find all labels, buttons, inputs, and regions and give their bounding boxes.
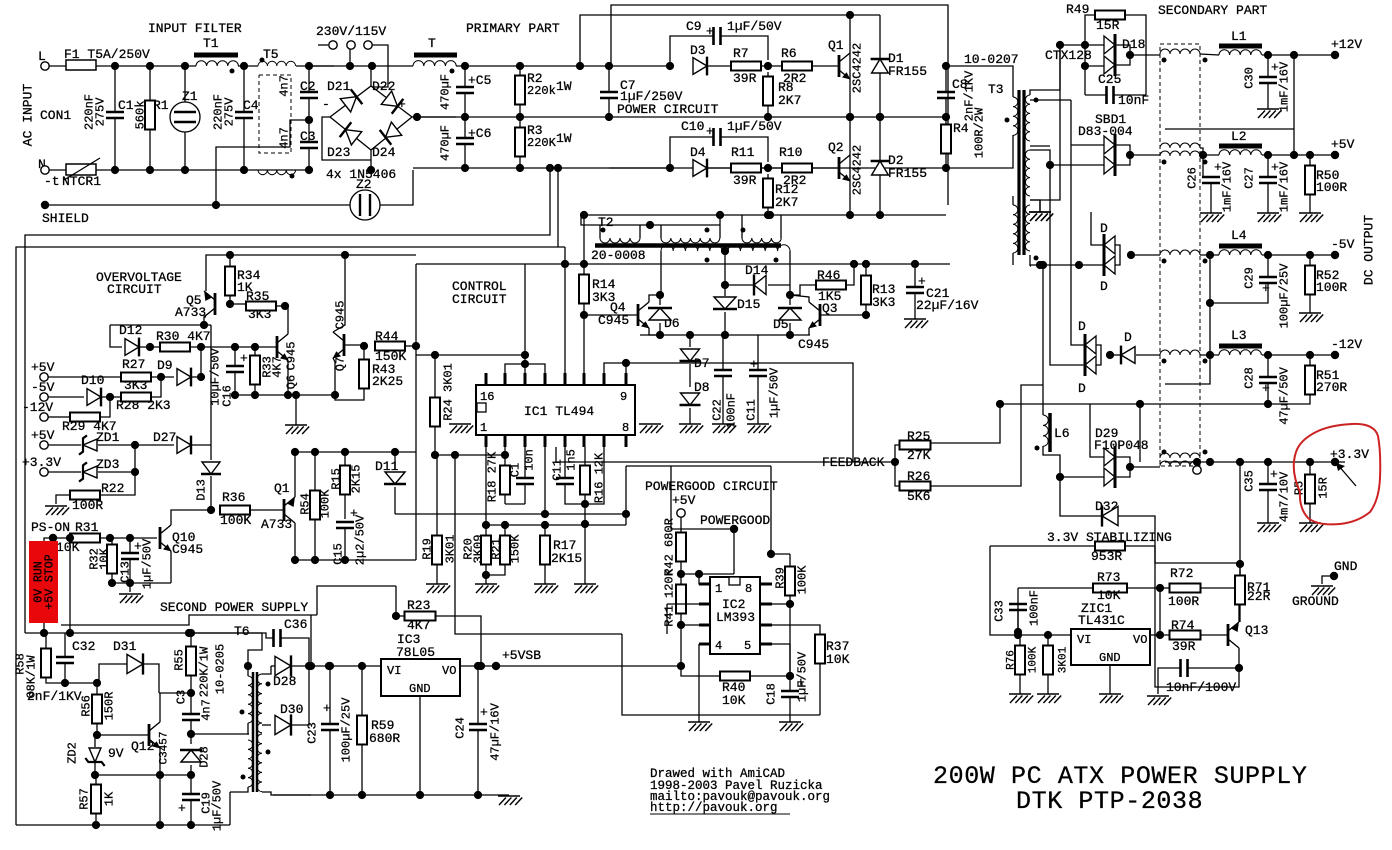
- wire R5 bottom: [1309, 504, 1311, 523]
- core T: [414, 53, 457, 58]
- junction: [561, 260, 569, 268]
- junction: [197, 343, 205, 351]
- wire pin10: [604, 363, 626, 373]
- wire D29 in1: [1090, 404, 1104, 457]
- inductor sec +3.3V a: [1160, 453, 1200, 458]
- wire D out -12V: [1136, 354, 1160, 356]
- wire R56 top: [96, 683, 98, 695]
- wire C30 top: [1267, 55, 1269, 77]
- wire y363 to right: [626, 363, 853, 462]
- svg-text:R41 120K: R41 120K: [663, 568, 677, 626]
- wire D10 out: [102, 396, 122, 398]
- diode D15: [713, 297, 737, 309]
- svg-text:VI: VI: [387, 664, 401, 678]
- svg-text:4x 1N5406: 4x 1N5406: [326, 167, 396, 182]
- wire R21 top: [504, 525, 506, 536]
- svg-text:D10: D10: [81, 373, 104, 388]
- junction: [1075, 261, 1083, 269]
- junction: [477, 662, 485, 670]
- svg-text:C36: C36: [284, 617, 307, 632]
- ground IC1 right: [639, 424, 663, 433]
- wire R33 bottom: [254, 385, 256, 395]
- svg-text:2SC4242: 2SC4242: [851, 43, 865, 93]
- wire D28 in: [271, 665, 275, 667]
- wire T2 sec left drop: [660, 251, 662, 295]
- wire T2 stub b1: [660, 225, 662, 238]
- wire C32 bottom: [64, 663, 66, 683]
- inductor sec +5V a: [1160, 143, 1200, 148]
- junction: [131, 441, 139, 449]
- phase dot: [1005, 118, 1010, 123]
- diode D11: [384, 472, 406, 484]
- junction: [686, 331, 694, 339]
- wire D9 up: [200, 347, 202, 377]
- wire control rail 20-0008: [416, 263, 950, 265]
- ground R52: [1299, 313, 1323, 322]
- wire R42 top: [680, 517, 682, 532]
- wire pin2: [667, 603, 699, 605]
- transistor Q4: [638, 302, 650, 329]
- wire sense line ext: [1140, 403, 1268, 405]
- wire power bottom rail: [581, 214, 946, 216]
- svg-text:CIRCUIT: CIRCUIT: [107, 282, 162, 297]
- svg-text:+: +: [480, 705, 488, 720]
- wire FEEDBACK line: [556, 447, 895, 462]
- svg-text:1µF/50V: 1µF/50V: [211, 780, 225, 831]
- svg-text:GROUND: GROUND: [1292, 594, 1339, 609]
- junction: [1199, 151, 1207, 159]
- wire R22 to gnd: [56, 495, 70, 504]
- wire to D single: [1110, 354, 1121, 356]
- resistor R8: [763, 77, 773, 106]
- diode D5: [778, 308, 802, 320]
- wire -5V rail: [1262, 254, 1335, 256]
- svg-text:+5V: +5V: [1331, 137, 1355, 152]
- transistor Q2: [839, 155, 851, 182]
- svg-text:CIRCUIT: CIRCUIT: [452, 292, 507, 307]
- svg-text:100K: 100K: [1028, 646, 1040, 673]
- wire R19 top: [436, 455, 438, 536]
- wire C15 bottom: [344, 528, 346, 560]
- wire R32 bottom: [111, 574, 113, 583]
- svg-text:4: 4: [715, 639, 722, 653]
- terminal -5V: [1331, 251, 1339, 259]
- core L6: [1048, 413, 1052, 452]
- junction: [66, 629, 74, 637]
- junction: [501, 521, 509, 529]
- diode D6: [648, 308, 672, 320]
- svg-text:3K01: 3K01: [1058, 646, 1070, 673]
- wire R32 top: [110, 538, 112, 545]
- wire +12V to +5V link: [1293, 55, 1295, 155]
- svg-text:100µF/25V: 100µF/25V: [1278, 263, 1292, 329]
- junction: [721, 331, 729, 339]
- wire Q13 emitter: [1239, 605, 1240, 622]
- wire R20 top: [485, 525, 487, 536]
- capacitor C1: [106, 112, 124, 118]
- wire C22 bottom: [722, 376, 724, 424]
- svg-text:15R: 15R: [1096, 18, 1120, 33]
- svg-text:47µF/50V: 47µF/50V: [1278, 366, 1292, 424]
- svg-text:8: 8: [745, 582, 752, 596]
- svg-text:220K: 220K: [527, 136, 557, 150]
- resistor R42: [676, 533, 686, 562]
- capacitor C11 b: [749, 370, 767, 376]
- svg-text:4m7/10V: 4m7/10V: [1278, 471, 1292, 522]
- ground cap: [1147, 696, 1171, 705]
- wire pin5: [772, 644, 790, 676]
- capacitor C29: [1259, 277, 1277, 283]
- svg-text:220k: 220k: [527, 84, 556, 98]
- wire R3 top: [519, 117, 521, 128]
- wire D14 in: [725, 284, 753, 286]
- wire R43 bottom: [335, 389, 364, 400]
- wire R59 bottom: [361, 745, 363, 795]
- capacitor C4: [235, 112, 253, 118]
- wire R71 top: [1239, 564, 1241, 576]
- diode D2: [871, 161, 890, 175]
- wire T6 prim bottom: [248, 723, 249, 734]
- wire to POWERGOOD: [671, 466, 734, 529]
- resistor R24: [430, 398, 440, 427]
- wire R54 bottom: [314, 520, 316, 560]
- junction: [1156, 584, 1164, 592]
- svg-text:-12V: -12V: [22, 400, 53, 415]
- junction: [61, 679, 69, 687]
- wire to ZD3: [48, 471, 81, 473]
- junction: [1126, 463, 1134, 471]
- svg-text:R18 27K: R18 27K: [486, 451, 500, 502]
- junction: [126, 534, 134, 542]
- red annotation run/stop: [29, 541, 58, 623]
- wire C4 top: [243, 66, 245, 112]
- svg-text:R11: R11: [731, 145, 755, 160]
- svg-text:FR155: FR155: [888, 64, 927, 79]
- resistor R3: [515, 128, 525, 157]
- terminal selector 3: [364, 41, 372, 49]
- wire bridge top: [370, 66, 372, 86]
- svg-text:D15: D15: [737, 297, 760, 312]
- junction: [106, 534, 114, 542]
- junction: [1126, 151, 1134, 159]
- wire R1 bottom: [149, 130, 151, 170]
- junction: [1056, 473, 1064, 481]
- junction: [846, 113, 854, 121]
- phase dot: [240, 710, 245, 715]
- phase dot: [1203, 160, 1208, 165]
- wire: [396, 615, 404, 617]
- svg-text:+5VSB: +5VSB: [502, 648, 541, 663]
- wire 953R right: [1125, 545, 1155, 547]
- wire C10 left: [670, 137, 713, 168]
- svg-text:1n5: 1n5: [565, 449, 579, 471]
- junction: [786, 291, 794, 299]
- resistor R58: [41, 649, 51, 678]
- junction: [331, 391, 339, 399]
- wire pin1: [699, 574, 710, 584]
- junction: [911, 260, 919, 268]
- phase dot: [705, 258, 710, 263]
- wire C6 top: [464, 117, 466, 138]
- svg-text:10-0207: 10-0207: [964, 52, 1019, 67]
- resistor 953R: [1095, 542, 1125, 551]
- junction: [146, 343, 154, 351]
- svg-text:C23: C23: [306, 722, 320, 744]
- wire to T6: [191, 733, 249, 735]
- capacitor C5: [456, 87, 474, 93]
- junction: [305, 662, 313, 670]
- svg-text:+: +: [797, 675, 805, 690]
- capacitor C15: [336, 522, 354, 528]
- wire R51 bottom: [1268, 395, 1310, 404]
- wire GND: [1322, 576, 1334, 584]
- resistor R19: [432, 536, 442, 565]
- wire L6 bottom: [1043, 446, 1104, 477]
- terminal SHIELD: [41, 201, 49, 209]
- wire R76 bottom: [1019, 675, 1021, 694]
- capacitor C22: [714, 370, 732, 376]
- capacitor C21: [906, 287, 924, 293]
- junction: [516, 164, 524, 172]
- svg-text:2K7: 2K7: [775, 195, 798, 210]
- junction: [666, 164, 674, 172]
- pin 14 IC1: [524, 373, 527, 385]
- junction: [391, 448, 399, 456]
- junction: [605, 113, 613, 121]
- pin 11 IC1: [583, 373, 586, 385]
- wire VI rail: [311, 665, 381, 667]
- svg-text:1µF/50V: 1µF/50V: [768, 367, 782, 418]
- wire T2 upper link: [581, 215, 720, 225]
- svg-text:1K: 1K: [103, 791, 117, 806]
- svg-text:D: D: [1078, 319, 1086, 334]
- wire R3 bottom: [519, 156, 521, 168]
- svg-text:10K: 10K: [826, 652, 850, 667]
- junction: [716, 211, 724, 219]
- junction: [368, 62, 376, 70]
- wire T5 to selector rail: [296, 65, 334, 67]
- wire C5 bottom: [464, 93, 466, 117]
- wire C13 top: [129, 538, 131, 553]
- resistor R22: [70, 491, 100, 500]
- pin IC2 left stub: [699, 583, 710, 586]
- resistor R1: [145, 101, 155, 130]
- junction: [305, 116, 313, 124]
- svg-text:PS-ON: PS-ON: [31, 520, 70, 535]
- terminal +12V: [1331, 51, 1339, 59]
- wire T6 prim top: [247, 666, 249, 676]
- junction: [1264, 458, 1272, 466]
- wire tap b: [1030, 99, 1071, 101]
- svg-text:T: T: [428, 36, 436, 51]
- inductor sec +5V b: [1160, 151, 1200, 156]
- wire SBD1 in1: [1071, 144, 1104, 146]
- wire R59 top: [361, 666, 363, 716]
- wire R14 bottom: [583, 304, 585, 315]
- wire C24 bottom: [477, 730, 479, 795]
- wire +5V to R27: [48, 376, 122, 378]
- terminal +5V: [1331, 151, 1339, 159]
- junction: [291, 448, 299, 456]
- wire C18 top: [789, 676, 791, 691]
- svg-text:2µ2/50V: 2µ2/50V: [354, 514, 368, 565]
- wire R18 bottom: [504, 495, 506, 504]
- svg-text:D18: D18: [1122, 37, 1145, 52]
- inductor T6 aux: [248, 740, 253, 787]
- svg-text:D21: D21: [327, 79, 351, 94]
- wire ZD2 bottom: [94, 763, 96, 775]
- pin IC2 left stub: [699, 603, 710, 606]
- wire C18 bottom: [789, 697, 791, 722]
- wire R39 top: [789, 554, 791, 566]
- terminal -5V: [40, 393, 48, 401]
- ground IC2 b: [779, 722, 803, 731]
- svg-text:CTX128: CTX128: [1045, 48, 1092, 63]
- wire +3.3V rail: [1165, 461, 1345, 463]
- svg-text:39R: 39R: [733, 173, 757, 188]
- svg-text:ZD3: ZD3: [96, 457, 119, 472]
- wire VO out: [460, 665, 496, 667]
- wire D-5V in1: [1091, 212, 1104, 245]
- capacitor C3: [182, 714, 200, 720]
- wire C9 right: [721, 36, 768, 60]
- svg-text:100R: 100R: [72, 498, 103, 513]
- wire D9 out: [192, 376, 201, 378]
- diode D22: [381, 90, 404, 113]
- resistor R4: [941, 125, 951, 154]
- ground R50: [1299, 213, 1323, 222]
- svg-text:270R: 270R: [1316, 380, 1347, 395]
- junction: [942, 164, 950, 172]
- wire R8 top: [767, 72, 769, 76]
- junction: [786, 331, 794, 339]
- resistor 3K01: [1043, 646, 1053, 675]
- svg-text:C27: C27: [1243, 167, 1257, 189]
- capacitor C16: [226, 366, 244, 372]
- junction: [341, 448, 349, 456]
- svg-text:D24: D24: [372, 145, 396, 160]
- wire T3 aux top: [1012, 196, 1014, 205]
- inductor L3: [1219, 350, 1261, 355]
- wire R13 bottom: [865, 305, 867, 315]
- junction: [1264, 400, 1272, 408]
- wire D32 out: [1118, 516, 1155, 563]
- wire C19 bottom: [190, 800, 192, 825]
- wire 3K01 bottom: [1047, 675, 1049, 694]
- wire D7 top: [689, 335, 691, 347]
- ground C11b: [747, 424, 771, 433]
- diode D23: [340, 122, 363, 145]
- wire to L1: [1200, 54, 1219, 55]
- terminal GND: [1330, 572, 1338, 580]
- wire: [285, 305, 288, 307]
- junction: [305, 166, 313, 174]
- junction: [93, 679, 101, 687]
- svg-text:+12V: +12V: [1331, 37, 1362, 52]
- diode D3: [693, 57, 707, 76]
- terminal POWERGOOD: [730, 525, 738, 533]
- phase dot: [290, 174, 295, 179]
- svg-text:100µF/25V: 100µF/25V: [340, 697, 354, 763]
- wire R41 to rail: [680, 625, 682, 666]
- wire T3 tap gnd: [1030, 200, 1040, 212]
- inductor sec +3.3V b: [1160, 461, 1200, 466]
- wire D11 top: [394, 452, 396, 470]
- junction: [187, 629, 195, 637]
- transistor Q5: [204, 291, 215, 317]
- wire R43 top: [363, 346, 365, 360]
- junction: [131, 468, 139, 476]
- inductor T1: [196, 61, 238, 66]
- wire C22 top: [722, 335, 724, 370]
- core L2: [1219, 144, 1262, 149]
- terminal L: [41, 62, 49, 70]
- resistor R29: [70, 413, 100, 422]
- inductor T6 primary: [248, 676, 253, 723]
- svg-text:9: 9: [620, 390, 627, 404]
- wire top line A: [611, 5, 948, 205]
- wire -12V rail: [1262, 354, 1335, 356]
- svg-text:D: D: [1100, 279, 1108, 294]
- ground D8: [679, 424, 703, 433]
- pin 15 IC1: [504, 373, 507, 385]
- wire R12 bottom: [767, 207, 769, 215]
- wire Q3 collector: [790, 295, 809, 302]
- wire C1 top: [524, 447, 526, 478]
- junction: [108, 579, 116, 587]
- wire: [1210, 176, 1212, 178]
- red annotation circle R5: [1294, 424, 1381, 524]
- diode D1: [871, 59, 890, 73]
- wire Q5 collector: [204, 317, 206, 325]
- wire: [666, 604, 668, 634]
- core T6 b: [256, 672, 259, 792]
- ground IC1 left: [449, 424, 473, 433]
- wire R13 top: [865, 264, 867, 276]
- core T6 a: [252, 672, 255, 792]
- junction: [580, 311, 588, 319]
- pin 13 IC1: [544, 373, 547, 385]
- wire Q1b emitter up: [294, 452, 296, 497]
- fuse F1: [66, 60, 96, 70]
- wire D30 out: [291, 666, 309, 725]
- svg-text:D: D: [1100, 221, 1108, 236]
- regulator IC3 78L05 body: [381, 659, 460, 696]
- resistor R32: [107, 545, 117, 574]
- junction: [622, 510, 630, 518]
- wire C32 top: [64, 633, 66, 657]
- resistor R7: [731, 62, 761, 71]
- junction: [846, 113, 854, 121]
- capacitor C8: [937, 92, 955, 98]
- wire D32 net: [1155, 546, 1240, 563]
- wire D8 bottom: [689, 408, 691, 424]
- terminal +5V a: [40, 373, 48, 381]
- wire Q6 emitter: [287, 360, 289, 395]
- capacitor C24: [469, 724, 487, 730]
- wire R30 right: [190, 346, 277, 348]
- wire pin14 riser: [524, 264, 526, 373]
- wire R15 top: [344, 452, 346, 466]
- wire to R25: [895, 445, 899, 462]
- diode D31: [127, 653, 143, 674]
- capacitor C13: [121, 553, 139, 559]
- wire VI in: [1010, 634, 1071, 636]
- svg-text:100nF: 100nF: [1028, 590, 1042, 626]
- svg-text:275V: 275V: [223, 97, 237, 127]
- junction: [358, 662, 366, 670]
- junction: [187, 730, 195, 738]
